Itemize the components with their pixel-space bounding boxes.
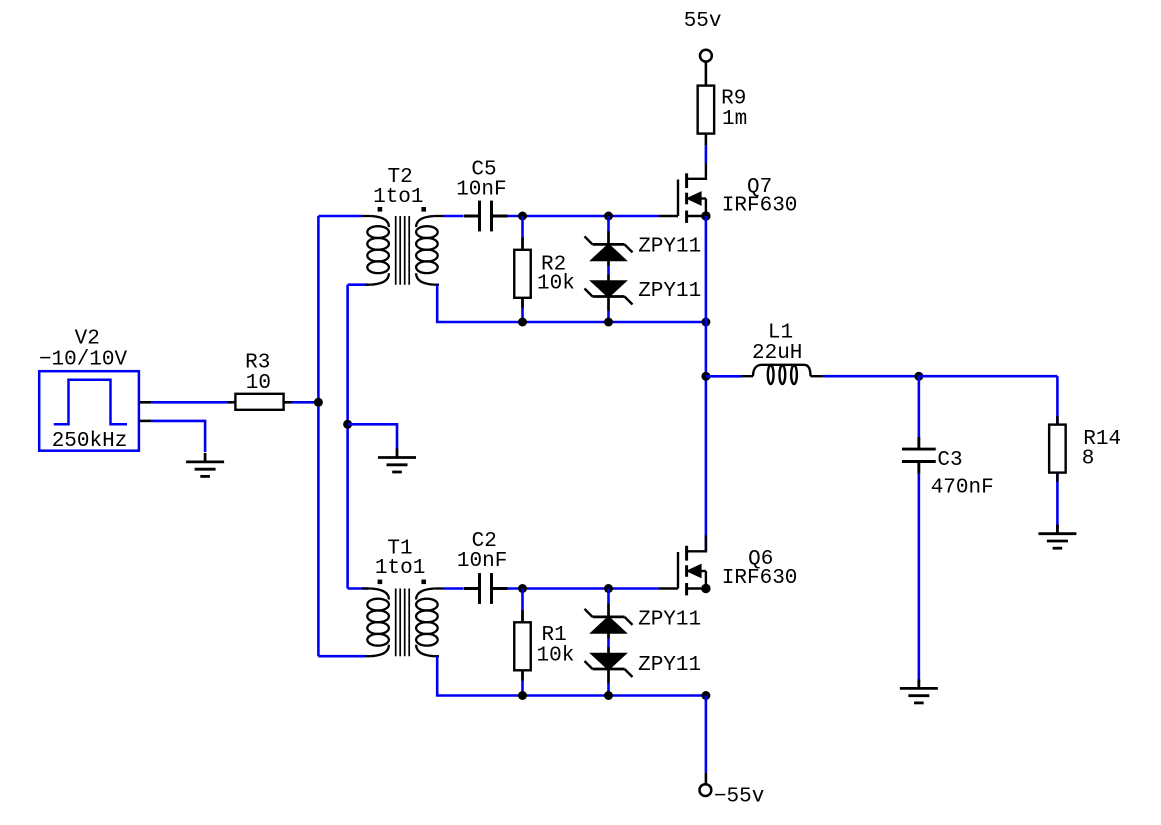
junction gate rail2 / R1 xyxy=(518,584,527,593)
wire second bus vertical xyxy=(346,285,349,589)
wire left bus to T1 lower lead xyxy=(318,655,366,658)
wire C2 to Q6 gate xyxy=(508,587,659,590)
transformer T2 xyxy=(362,207,443,285)
junction Q6 source node xyxy=(701,584,710,593)
svg-text:ZPY11: ZPY11 xyxy=(638,609,701,632)
wire C5 to Q7 gate xyxy=(508,215,659,218)
svg-text:C3: C3 xyxy=(937,449,962,472)
wire second bus to T1 upper lead xyxy=(348,587,368,590)
wire left bus to T2 upper lead xyxy=(318,215,362,218)
terminal stub xyxy=(705,773,708,785)
MOSFET Q6 IRF630 xyxy=(659,536,706,596)
V2 minus lead xyxy=(139,420,152,423)
wire bottom-cell lower rail xyxy=(437,656,706,695)
terminal -55v xyxy=(700,784,712,796)
junction C3 node xyxy=(914,372,923,381)
MOSFET Q7 IRF630 xyxy=(659,163,706,223)
svg-text:10nF: 10nF xyxy=(457,550,507,573)
capacitor C2 xyxy=(464,573,508,604)
R3 left stub xyxy=(228,401,235,404)
svg-text:V2: V2 xyxy=(75,328,100,351)
R14 bottom stub xyxy=(1056,473,1059,482)
zener diode ZPY11 (upper, lower cell) xyxy=(585,604,633,639)
wire rail2 to R1 xyxy=(521,589,524,623)
junction lower rail2 / source bus xyxy=(701,691,710,700)
R1 bottom stub xyxy=(521,670,524,681)
ground mid xyxy=(378,449,416,473)
wire C3 to ground xyxy=(918,474,921,682)
R14 top stub xyxy=(1056,416,1059,425)
resistor R1 xyxy=(514,622,531,670)
svg-text:−10/10V: −10/10V xyxy=(39,349,128,372)
svg-text:10nF: 10nF xyxy=(456,178,506,201)
svg-text:ZPY11: ZPY11 xyxy=(638,654,701,677)
wire node to L1 xyxy=(706,375,742,378)
junction gate rail / zeners xyxy=(604,212,613,221)
svg-text:250kHz: 250kHz xyxy=(52,430,128,453)
wire rail2 to -55v terminal xyxy=(705,696,708,773)
svg-text:1to1: 1to1 xyxy=(375,557,425,580)
wire zener column xyxy=(607,216,610,322)
R1 top stub xyxy=(521,610,524,622)
wire T1 to C2 xyxy=(443,587,463,590)
svg-text:R9: R9 xyxy=(721,87,746,110)
zener diode ZPY11 (lower, lower cell) xyxy=(585,647,633,683)
svg-text:1to1: 1to1 xyxy=(373,186,423,209)
junction gate rail / R2 xyxy=(518,212,527,221)
junction lower rail / zeners xyxy=(604,318,613,327)
svg-text:1m: 1m xyxy=(722,108,747,131)
svg-text:IRF630: IRF630 xyxy=(722,567,798,590)
capacitor C5 xyxy=(464,201,508,232)
svg-text:10: 10 xyxy=(246,372,271,395)
svg-text:ZPY11: ZPY11 xyxy=(638,280,701,303)
capacitor C3 xyxy=(902,437,936,474)
svg-text:10k: 10k xyxy=(537,645,575,668)
wire source bus Q7 to Q6 xyxy=(705,216,708,551)
svg-text:L1: L1 xyxy=(768,321,793,344)
R3 right stub xyxy=(284,401,292,404)
zener diode ZPY11 (upper) xyxy=(585,231,633,266)
wire T2 to C5 xyxy=(443,215,463,218)
svg-text:22uH: 22uH xyxy=(752,342,802,365)
R2 top stub xyxy=(521,238,524,250)
wire V2+ to R3 xyxy=(152,401,228,404)
junction lower rail / source bus xyxy=(701,318,710,327)
wire node to R14 corner xyxy=(919,375,1058,378)
wire corner down to R14 xyxy=(1056,376,1059,424)
wire node down to C3 xyxy=(918,376,921,440)
R9 bottom stub xyxy=(705,134,708,146)
V2 plus lead xyxy=(139,401,152,404)
svg-text:−55v: −55v xyxy=(714,785,764,808)
wire left bus vertical xyxy=(317,216,320,656)
junction gate rail2 / zeners xyxy=(604,584,613,593)
svg-text:IRF630: IRF630 xyxy=(722,194,798,217)
wire rail to R2 xyxy=(521,216,524,250)
wire L1 to C3 node xyxy=(823,375,919,378)
svg-text:55v: 55v xyxy=(684,10,722,33)
ground at R14 xyxy=(1038,525,1076,549)
junction lower rail2 / R1 xyxy=(518,691,527,700)
svg-text:R1: R1 xyxy=(542,624,567,647)
wire R9 to Q7 drain xyxy=(705,145,708,163)
ground at V2 xyxy=(186,453,224,477)
svg-text:10k: 10k xyxy=(537,273,575,296)
wire R3 to bus xyxy=(292,401,319,404)
wire to mid ground xyxy=(348,424,397,449)
junction lower rail / R2 xyxy=(518,318,527,327)
wire zener column 2 xyxy=(607,589,610,696)
junction Q7 source node xyxy=(701,211,710,220)
wire R14 to ground xyxy=(1056,473,1059,529)
R9 top lead xyxy=(705,62,708,86)
resistor R14 xyxy=(1049,425,1066,473)
wire V2- to ground xyxy=(152,421,205,452)
junction second bus / ground tap xyxy=(343,420,352,429)
resistor R2 xyxy=(514,250,531,298)
R2 bottom stub xyxy=(521,298,524,309)
wire T2 lower lead to second bus xyxy=(348,283,368,286)
svg-text:470nF: 470nF xyxy=(931,477,994,500)
junction lower rail2 / zeners xyxy=(604,691,613,700)
svg-text:8: 8 xyxy=(1082,448,1095,471)
junction R3 / left bus xyxy=(314,398,323,407)
svg-text:R3: R3 xyxy=(245,351,270,374)
transformer T1 xyxy=(362,580,443,657)
wire R2 to lower rail xyxy=(521,298,524,322)
resistor R9 xyxy=(698,86,715,134)
ground at C3 xyxy=(900,679,938,703)
resistor R3 xyxy=(235,394,283,410)
wire R1 to lower rail2 xyxy=(521,670,524,695)
zener diode ZPY11 (lower) xyxy=(585,275,633,311)
terminal 55v xyxy=(700,50,712,62)
junction output node xyxy=(701,372,710,381)
voltage source V2 xyxy=(39,371,139,451)
inductor L1 xyxy=(741,365,823,384)
wire top-cell lower rail xyxy=(437,285,706,322)
svg-text:ZPY11: ZPY11 xyxy=(638,235,701,258)
